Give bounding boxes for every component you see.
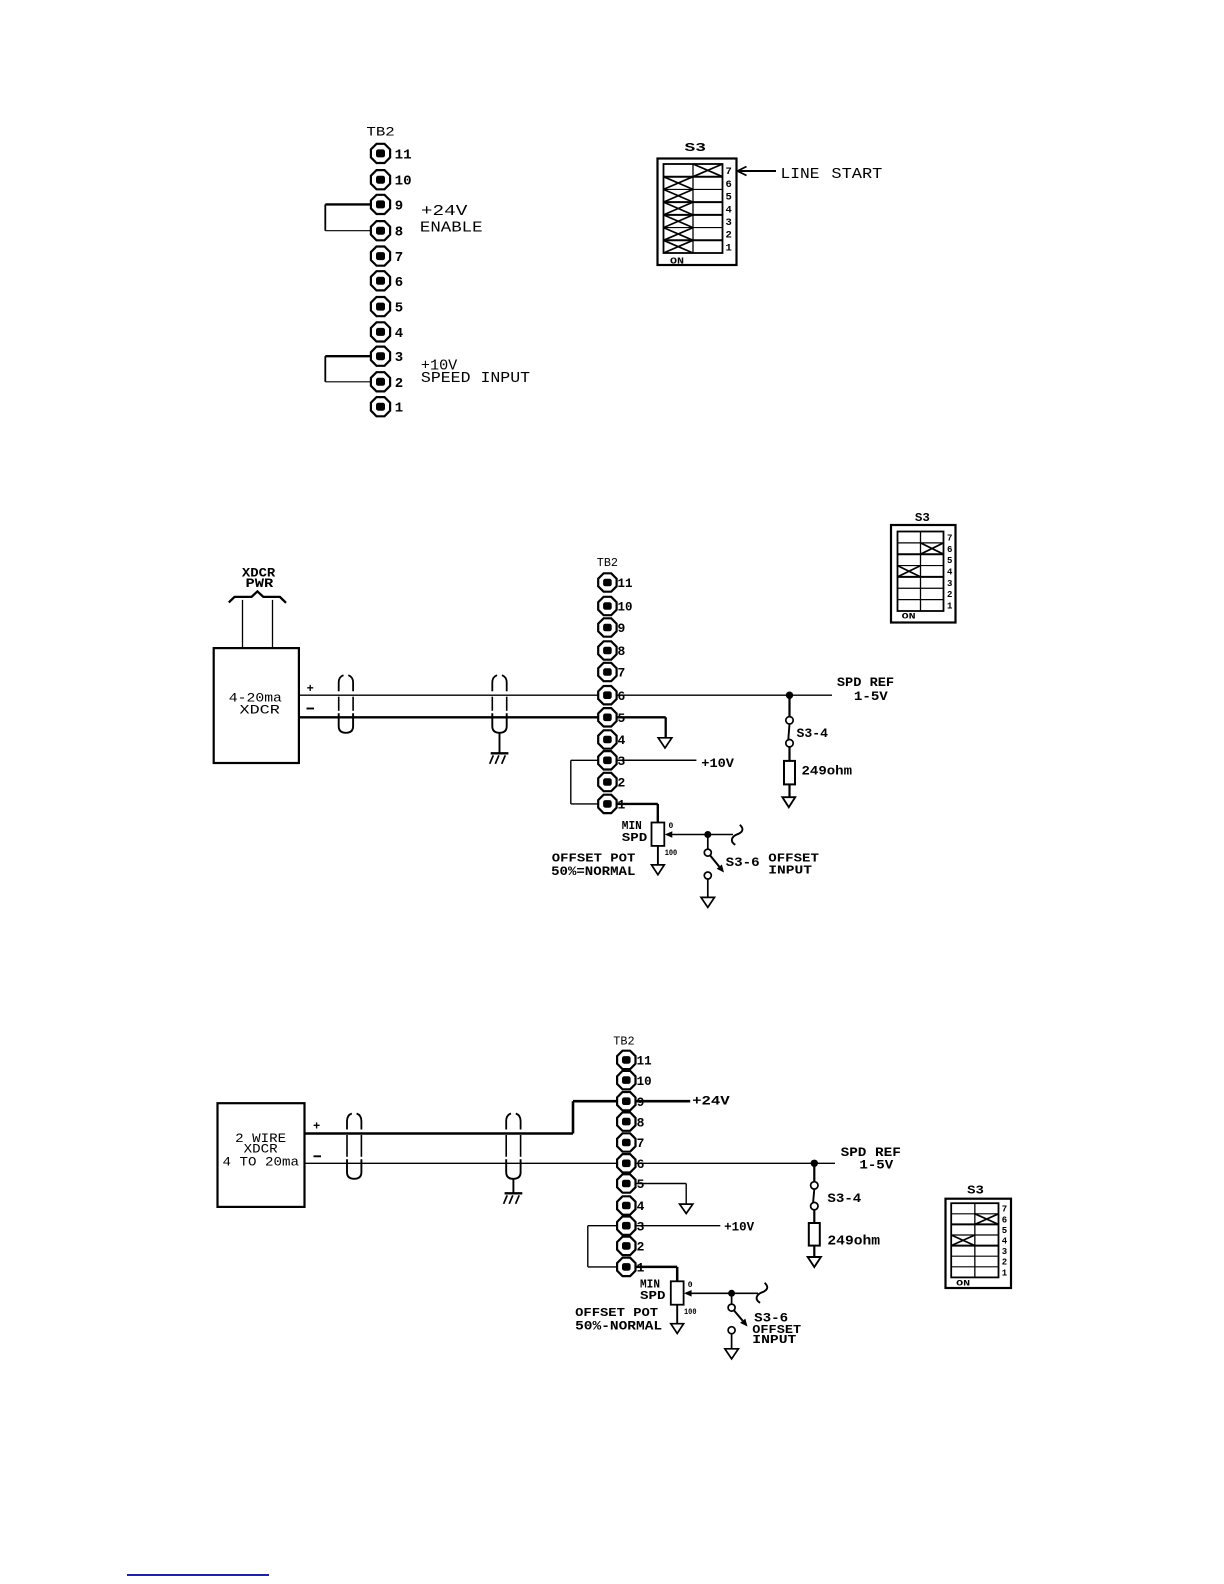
svg-text:4: 4 <box>395 326 403 342</box>
wire TB2-3 to +10V (middle) <box>617 759 697 761</box>
svg-text:0: 0 <box>669 822 674 831</box>
net label SPD REF 1-5V (bottom) <box>841 1145 901 1172</box>
flexible lead squiggle (middle) <box>732 825 743 845</box>
svg-text:8: 8 <box>395 225 403 241</box>
svg-text:4: 4 <box>1002 1237 1008 1247</box>
svg-text:ON: ON <box>956 1278 970 1288</box>
svg-text:S3-4: S3-4 <box>827 1191 861 1206</box>
terminal TB2-8 <box>598 641 625 659</box>
DIP switch S3 (bottom) body <box>946 1199 1012 1288</box>
svg-text:8: 8 <box>637 1115 645 1130</box>
svg-text:START: START <box>831 166 882 183</box>
svg-text:S3: S3 <box>915 511 930 525</box>
svg-text:1: 1 <box>395 401 403 417</box>
label XDCR PWR (middle) <box>242 566 276 591</box>
net label +10V SPEED INPUT (top) <box>421 358 530 387</box>
net label +24V ENABLE (top) <box>420 203 483 236</box>
junction node SPD REF (bottom) <box>811 1160 818 1167</box>
svg-text:OFFSET POT: OFFSET POT <box>552 852 636 865</box>
svg-text:ENABLE: ENABLE <box>420 219 483 236</box>
svg-text:LINE: LINE <box>781 166 820 183</box>
svg-text:249ohm: 249ohm <box>802 763 853 778</box>
svg-text:100: 100 <box>684 1308 697 1317</box>
wire TB2-5 to common arrow (bottom) <box>636 1184 687 1204</box>
wire junction to S3-6 (bottom) <box>731 1293 733 1304</box>
svg-text:3: 3 <box>1002 1247 1007 1257</box>
svg-text:OFFSET POT: OFFSET POT <box>575 1307 658 1320</box>
svg-text:4: 4 <box>618 733 626 748</box>
wire + output to TB2-6 and SPD REF junction (middle) <box>299 694 832 696</box>
footer hyperlink rule (blue) <box>127 1574 269 1576</box>
svg-text:0: 0 <box>688 1281 693 1290</box>
wiper wire with arrow (middle) <box>665 831 733 838</box>
svg-text:5: 5 <box>1002 1226 1007 1236</box>
svg-text:7: 7 <box>395 250 403 266</box>
wire TB2-5 to common arrow (middle) <box>617 717 666 737</box>
terminal TB2-1 <box>371 397 403 417</box>
wire + output to TB2-9 and +24V (bottom) <box>305 1101 691 1133</box>
svg-text:249ohm: 249ohm <box>827 1234 880 1249</box>
S3 (bottom) pin numbers 7-1 <box>1002 1205 1008 1279</box>
terminal TB2-5 <box>371 297 403 317</box>
value label 4-20ma XDCR (middle) <box>229 691 282 718</box>
S3 (top) position 5 X mark <box>664 189 694 202</box>
svg-text:5: 5 <box>947 556 952 566</box>
S3 (middle) pin numbers 7-1 <box>947 533 953 611</box>
ground below S3-6 (middle) <box>701 897 715 907</box>
potentiometer MIN SPD (middle) <box>652 823 665 846</box>
svg-text:4: 4 <box>637 1199 645 1214</box>
polarity label - (middle) <box>307 708 315 710</box>
terminal TB2-9 <box>598 618 625 636</box>
cable shield symbol 2 (middle) <box>492 675 506 733</box>
svg-text:6: 6 <box>395 275 403 291</box>
svg-text:SPEED INPUT: SPEED INPUT <box>421 370 530 387</box>
svg-text:1: 1 <box>726 242 732 254</box>
jumper wire TB2-3 to TB2-2 (top) <box>325 356 371 382</box>
transducer 2 WIRE XDCR box (bottom) <box>218 1103 305 1207</box>
svg-text:9: 9 <box>637 1095 645 1110</box>
svg-text:9: 9 <box>395 198 403 214</box>
terminal TB2-4 <box>617 1196 645 1214</box>
wire resistor to ground (middle) <box>788 784 790 797</box>
switch S3-6 (middle) <box>704 849 724 897</box>
wire junction to S3-6 (middle) <box>707 835 709 850</box>
terminal TB2-11 <box>598 573 632 591</box>
svg-text:7: 7 <box>947 533 952 543</box>
svg-text:XDCR: XDCR <box>240 702 281 717</box>
S3 (top) position 3 X mark <box>664 215 694 228</box>
svg-text:5: 5 <box>395 301 403 317</box>
terminal TB2-1 <box>598 795 625 813</box>
down arrow common at TB2-5 wire (bottom) <box>680 1204 693 1213</box>
svg-text:ON: ON <box>902 612 916 622</box>
terminal TB2-3 <box>598 751 625 769</box>
svg-text:S3: S3 <box>967 1184 984 1198</box>
svg-text:11: 11 <box>618 576 633 591</box>
svg-text:100: 100 <box>665 849 678 858</box>
svg-text:+: + <box>313 1119 320 1133</box>
svg-text:3: 3 <box>947 579 952 589</box>
terminal TB2-8 <box>617 1112 645 1130</box>
polarity label - (bottom) <box>314 1155 322 1157</box>
svg-text:50%=NORMAL: 50%=NORMAL <box>551 865 635 879</box>
ground below S3-6 (bottom) <box>725 1349 739 1359</box>
terminal TB2-5 <box>598 708 625 726</box>
junction node at wiper (middle) <box>704 831 711 838</box>
svg-text:6: 6 <box>618 689 626 704</box>
wire XDCR PWR right lead (middle) <box>272 600 274 648</box>
cable shield symbol 1 (middle) <box>339 675 353 733</box>
svg-text:7: 7 <box>637 1136 645 1151</box>
terminal TB2-10 <box>617 1071 652 1089</box>
S3 (top) position 4 X mark <box>664 202 694 215</box>
ground below resistor (middle) <box>782 797 795 807</box>
wire XDCR PWR left lead (middle) <box>242 600 244 648</box>
svg-text:10: 10 <box>618 600 633 615</box>
svg-text:1: 1 <box>637 1261 645 1276</box>
cable shield symbol 1 (bottom) <box>347 1114 361 1179</box>
svg-text:TB2: TB2 <box>613 1034 634 1048</box>
wire pot bottom to ground (bottom) <box>676 1305 678 1324</box>
terminal TB2-2 <box>617 1237 645 1255</box>
svg-text:10: 10 <box>637 1074 652 1089</box>
jumper wire TB2-9 to TB2-8 (top) <box>325 204 371 230</box>
jumper wire TB2-3 to TB2-1 (bottom) <box>588 1226 617 1267</box>
svg-text:6: 6 <box>1002 1215 1007 1225</box>
terminal TB2-4 <box>598 730 625 748</box>
junction node SPD REF (middle) <box>786 692 793 699</box>
svg-text:S3-6: S3-6 <box>726 855 760 870</box>
svg-text:S3-4: S3-4 <box>797 726 829 741</box>
label OFFSET INPUT (middle) <box>768 852 819 878</box>
svg-text:11: 11 <box>637 1054 652 1069</box>
wire TB2-1 to MIN SPD pot (bottom) <box>636 1267 678 1281</box>
switch S3-4 (bottom) <box>811 1163 818 1223</box>
label LINE START (top) <box>781 166 883 183</box>
jumper wire TB2-3 to TB2-1 (middle) <box>571 760 599 804</box>
svg-text:10: 10 <box>395 174 412 190</box>
terminal TB2-7 <box>371 247 403 267</box>
svg-text:TB2: TB2 <box>597 556 618 570</box>
label OFFSET POT 50%=NORMAL (middle) <box>551 852 635 879</box>
svg-text:11: 11 <box>395 147 412 163</box>
svg-text:SPD REF: SPD REF <box>837 675 894 690</box>
terminal TB2-9 <box>371 195 403 215</box>
label MIN SPD (middle) <box>622 819 648 845</box>
svg-text:7: 7 <box>1002 1205 1007 1215</box>
S3 (top) position 2 X mark <box>664 228 694 241</box>
svg-text:ON: ON <box>670 255 684 266</box>
svg-text:6: 6 <box>726 179 732 191</box>
wiper wire with arrow (bottom) <box>684 1290 758 1297</box>
S3 (top) position 7 X mark <box>693 164 723 177</box>
S3 (top) position 6 X mark <box>664 177 694 190</box>
terminal TB2-8 <box>371 221 403 241</box>
brace under XDCR PWR (middle) <box>229 591 286 602</box>
svg-text:7: 7 <box>618 666 626 681</box>
wire pot bottom to ground (middle) <box>657 846 659 865</box>
resistor 249ohm (bottom) <box>809 1223 820 1246</box>
svg-text:SPD: SPD <box>622 831 648 845</box>
terminal TB2-6 <box>598 686 625 704</box>
svg-text:1: 1 <box>618 798 626 813</box>
svg-text:50%-NORMAL: 50%-NORMAL <box>575 1319 662 1333</box>
terminal TB2-1 <box>617 1258 645 1276</box>
potentiometer MIN SPD (bottom) <box>671 1281 684 1304</box>
S3 (top) pin numbers 7-1 <box>726 166 732 254</box>
label OFFSET INPUT (bottom) <box>752 1323 801 1347</box>
svg-text:1: 1 <box>1002 1268 1008 1278</box>
S3 (top) position 1 X mark <box>664 240 694 253</box>
DIP switch S3 (middle) body <box>891 525 956 623</box>
svg-text:PWR: PWR <box>246 576 274 591</box>
svg-text:+24V: +24V <box>692 1093 730 1108</box>
resistor 249ohm (middle) <box>784 761 795 785</box>
svg-text:INPUT: INPUT <box>752 1333 796 1347</box>
terminal TB2-3 <box>617 1217 645 1235</box>
svg-text:1-5V: 1-5V <box>854 689 888 704</box>
terminal TB2-11 <box>371 144 412 164</box>
terminal TB2-9 <box>617 1092 645 1110</box>
svg-text:6: 6 <box>637 1157 645 1172</box>
pot scale labels 0 and 100 (middle) <box>665 822 678 858</box>
switch S3-4 (middle) <box>786 695 793 761</box>
terminal TB2-11 <box>617 1051 652 1069</box>
S3 (bottom) position 4 X mark <box>951 1235 975 1246</box>
svg-text:5: 5 <box>637 1177 645 1192</box>
down arrow common at TB2-5 wire (middle) <box>658 738 672 748</box>
terminal TB2-7 <box>598 663 625 681</box>
terminal TB2-5 <box>617 1174 645 1192</box>
ground below pot (bottom) <box>671 1324 684 1334</box>
svg-text:4: 4 <box>947 568 953 578</box>
svg-text:INPUT: INPUT <box>768 864 812 878</box>
svg-text:3: 3 <box>637 1219 645 1234</box>
svg-text:2: 2 <box>1002 1258 1007 1268</box>
terminal TB2-10 <box>371 170 412 190</box>
wire TB2-3 to +10V (bottom) <box>636 1225 721 1227</box>
svg-text:2: 2 <box>618 776 626 791</box>
cable shield symbol 2 (bottom) <box>506 1114 520 1179</box>
switch S3-6 (bottom) <box>728 1304 747 1349</box>
transducer 4-20ma XDCR box (middle) <box>214 648 299 763</box>
wire resistor to ground (bottom) <box>813 1246 815 1257</box>
pot scale labels 0 and 100 (bottom) <box>684 1281 697 1317</box>
svg-text:8: 8 <box>618 644 626 659</box>
wire TB2-1 to MIN SPD pot (middle) <box>617 804 658 823</box>
svg-text:+: + <box>307 682 314 696</box>
label MIN SPD (bottom) <box>640 1278 666 1304</box>
svg-text:3: 3 <box>618 754 626 769</box>
ground below pot (middle) <box>652 865 665 875</box>
svg-text:3: 3 <box>726 217 732 229</box>
svg-text:2: 2 <box>947 590 952 600</box>
svg-text:1-5V: 1-5V <box>859 1157 893 1172</box>
net label SPD REF 1-5V (middle) <box>837 675 894 704</box>
chassis ground at cable shield <box>504 1179 523 1204</box>
svg-text:3: 3 <box>395 350 403 366</box>
S3 (middle) position 6 X mark <box>921 543 944 554</box>
svg-text:TB2: TB2 <box>366 124 394 139</box>
label OFFSET POT 50%-NORMAL (bottom) <box>575 1307 662 1333</box>
svg-text:+10V: +10V <box>701 756 734 771</box>
svg-text:5: 5 <box>726 192 732 204</box>
chassis ground at cable shield <box>490 733 509 764</box>
terminal TB2-10 <box>598 597 632 615</box>
svg-text:2: 2 <box>637 1240 645 1255</box>
svg-text:SPD: SPD <box>640 1289 666 1303</box>
svg-text:6: 6 <box>947 545 952 555</box>
svg-text:9: 9 <box>618 621 626 636</box>
ground below resistor (bottom) <box>808 1257 821 1267</box>
svg-text:5: 5 <box>618 711 626 726</box>
svg-text:2: 2 <box>395 376 403 392</box>
terminal TB2-4 <box>371 322 403 342</box>
svg-text:4: 4 <box>726 204 732 216</box>
terminal TB2-7 <box>617 1133 644 1151</box>
terminal TB2-6 <box>617 1154 645 1172</box>
terminal TB2-3 <box>371 347 403 367</box>
arrow pointing to S3 position 7 (top) <box>738 167 777 176</box>
flexible lead squiggle (bottom) <box>757 1283 768 1303</box>
S3 (bottom) position 6 X mark <box>975 1214 999 1225</box>
terminal TB2-2 <box>598 773 625 791</box>
svg-text:S3: S3 <box>685 141 707 155</box>
svg-text:+10V: +10V <box>724 1219 754 1234</box>
junction node at wiper (bottom) <box>728 1290 735 1297</box>
DIP switch S3 (top) body <box>658 159 737 266</box>
svg-text:4 TO 20ma: 4 TO 20ma <box>223 1155 300 1170</box>
svg-text:+24V: +24V <box>421 203 468 220</box>
wire - output to TB2-5 (middle) <box>299 716 598 718</box>
wire - output to TB2-6 and SPD REF junction (bottom) <box>305 1162 836 1164</box>
value label 2 WIRE XDCR 4 TO 20ma (bottom) <box>223 1131 300 1170</box>
svg-text:7: 7 <box>726 166 732 178</box>
svg-text:2: 2 <box>726 230 732 242</box>
terminal TB2-6 <box>371 271 403 291</box>
svg-text:1: 1 <box>947 602 953 612</box>
terminal TB2-2 <box>371 372 403 392</box>
S3 (middle) position 4 X mark <box>898 566 921 577</box>
